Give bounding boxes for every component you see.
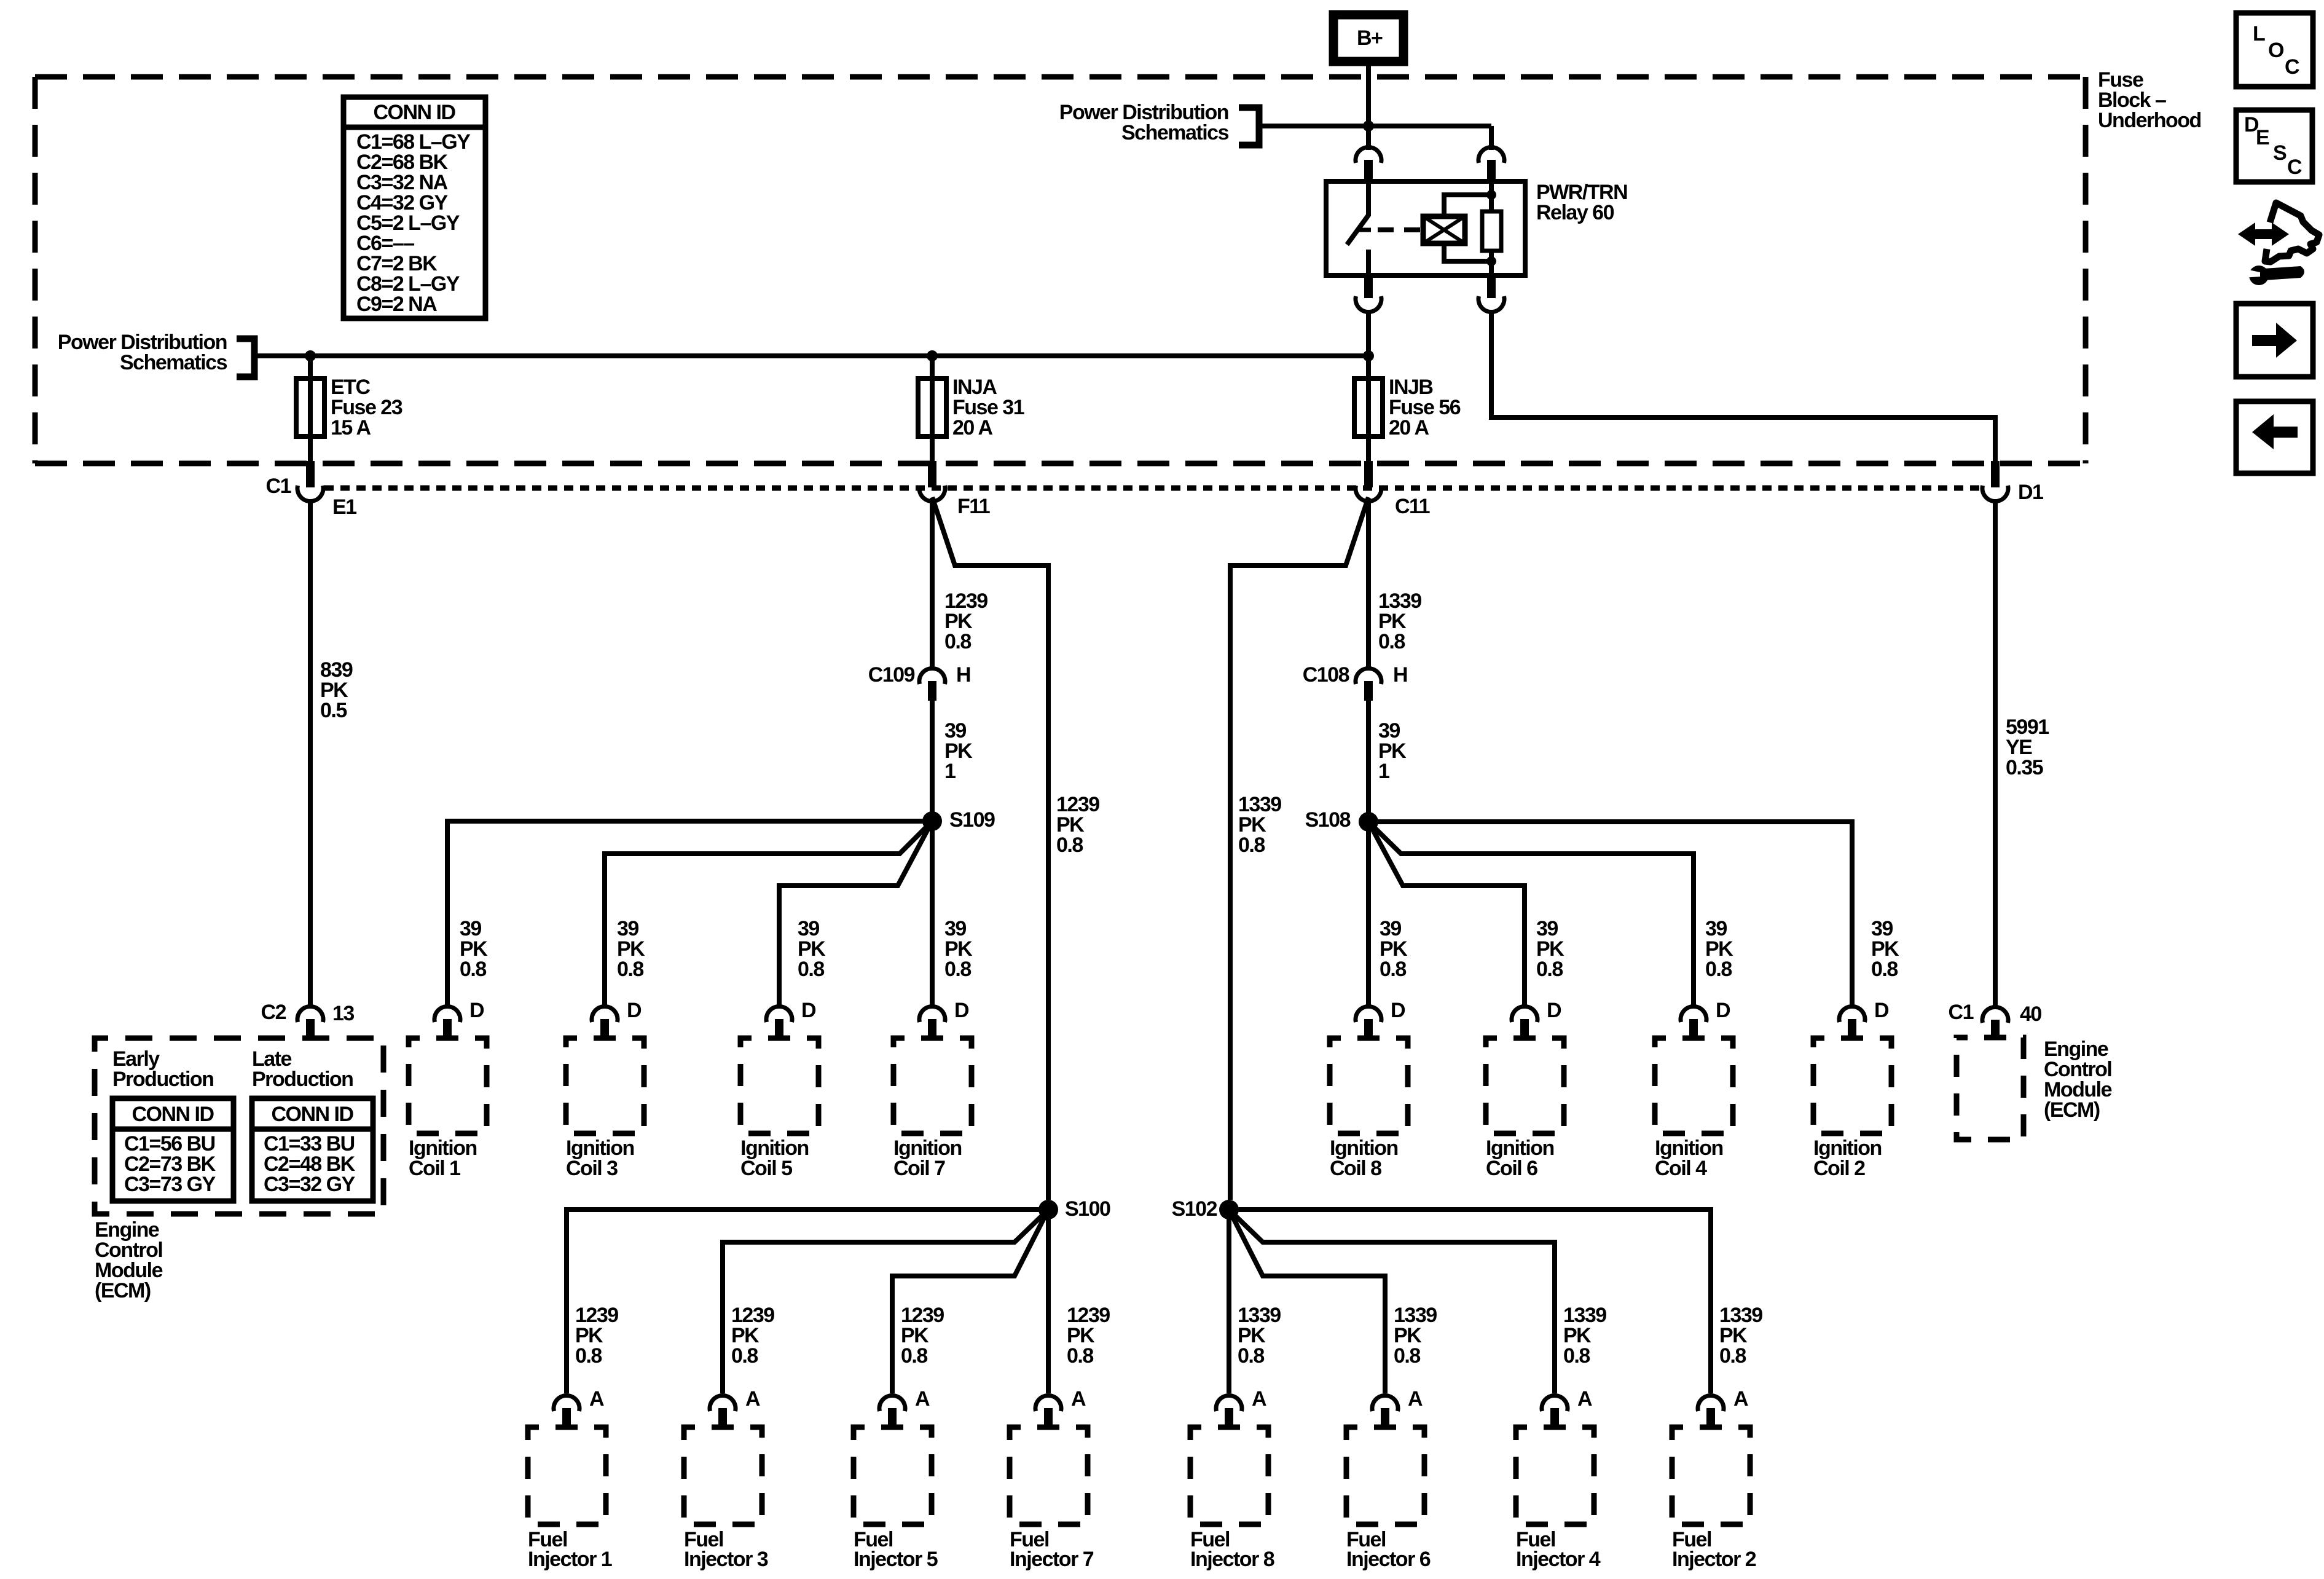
wire S108 to ignition coil 4 (1368, 822, 1694, 1006)
label wire 39 PK 1 (right) (1378, 719, 1407, 783)
wire S102 to fuel injector 4 (1229, 1210, 1555, 1393)
connector pin A fuel injector 2 (1698, 1387, 1748, 1427)
wire S109 to ignition coil 5 (779, 821, 932, 1006)
label Ignition Coil 6 (1486, 1136, 1554, 1180)
wire F11 branch to S100 feeder (932, 497, 1048, 1200)
connector pin D ignition coil 8 (1356, 999, 1405, 1039)
svg-text:O: O (2268, 39, 2284, 62)
fuel injector 5 box (854, 1427, 932, 1524)
svg-text:Coil 6: Coil 6 (1486, 1157, 1537, 1180)
fuse INJB Fuse 56 20A (1354, 358, 1383, 461)
svg-text:0.8: 0.8 (575, 1344, 602, 1368)
label wire 839 PK 0.5 (320, 658, 353, 722)
wire S100 to fuel injector 5 (892, 1210, 1048, 1393)
svg-text:0.8: 0.8 (1238, 833, 1265, 857)
connector pin A fuel injector 5 (879, 1387, 930, 1427)
svg-text:D: D (1874, 999, 1889, 1022)
connector pin A fuel injector 4 (1542, 1387, 1592, 1427)
label INJA Fuse 31 20 A (952, 376, 1024, 439)
label Ignition Coil 7 (893, 1136, 962, 1180)
label Engine Control Module ECM (right) (2044, 1038, 2112, 1122)
wire relay pin3 to main bus (1366, 311, 1371, 358)
label wire 1239 PK 0.8 (injector 1) (575, 1304, 618, 1368)
label Ignition Coil 1 (409, 1136, 477, 1180)
svg-text:Coil 2: Coil 2 (1813, 1157, 1865, 1180)
svg-text:0.35: 0.35 (2006, 756, 2043, 779)
svg-text:Production: Production (112, 1068, 213, 1091)
svg-text:C3=32 GY: C3=32 GY (264, 1173, 356, 1196)
wire S102 to fuel injector 2 (1229, 1210, 1711, 1393)
svg-text:L: L (2253, 22, 2265, 45)
label wire 39 PK 0.8 (coil 5) (798, 917, 826, 981)
svg-text:C1: C1 (266, 474, 291, 498)
fuel injector 4 box (1516, 1427, 1594, 1524)
svg-text:0.8: 0.8 (617, 958, 643, 981)
ignition coil 8 box (1330, 1038, 1408, 1133)
wire S102 to fuel injector 6 (1229, 1210, 1385, 1393)
connector pin A fuel injector 6 (1372, 1387, 1423, 1427)
table CONN ID late production (252, 1098, 373, 1201)
label INJB Fuse 56 20 A (1389, 376, 1461, 439)
svg-text:0.5: 0.5 (320, 699, 347, 722)
svg-text:0.8: 0.8 (460, 958, 486, 981)
wire relay pin2 internal vertical (1489, 181, 1494, 275)
wire S108 to ignition coil 8 (1366, 830, 1371, 1006)
svg-text:F11: F11 (957, 495, 990, 518)
svg-text:Schematics: Schematics (120, 351, 227, 374)
svg-text:20 A: 20 A (952, 416, 993, 439)
svg-text:E: E (2256, 126, 2269, 149)
connector C109 pin H (868, 663, 970, 701)
table CONN ID early production (112, 1098, 234, 1201)
svg-text:0.8: 0.8 (1719, 1344, 1746, 1368)
label wire 1339 PK 0.8 (C11-C108) (1378, 589, 1421, 653)
fuel injector 6 box (1346, 1427, 1424, 1524)
wire S100 to fuel injector 1 (567, 1210, 1048, 1393)
svg-text:Relay 60: Relay 60 (1536, 201, 1614, 224)
svg-text:D: D (954, 999, 969, 1022)
relay coil (box with X) (1423, 216, 1465, 243)
svg-text:H: H (956, 663, 970, 687)
wire 839 PK 0.5 (308, 500, 313, 1006)
fuel injector 1 box (528, 1427, 606, 1524)
connector relay pin 4 (bottom right) (1478, 275, 1504, 312)
label wire 39 PK 0.8 (coil 6) (1536, 917, 1564, 981)
svg-text:CONN ID: CONN ID (373, 101, 455, 124)
svg-text:0.8: 0.8 (731, 1344, 758, 1368)
fuse ETC Fuse 23 15A (296, 358, 324, 461)
fuel injector 8 box (1190, 1427, 1268, 1524)
label Ignition Coil 4 (1655, 1136, 1723, 1180)
harness dotted boundary line (324, 486, 1980, 491)
fuel injector 2 box (1672, 1427, 1750, 1524)
svg-text:C11: C11 (1395, 495, 1430, 518)
connector C2 pin 13 (ECM) (261, 1001, 355, 1039)
connector C108 pin H (1303, 663, 1407, 701)
label ETC Fuse 23 15 A (331, 376, 402, 439)
node junction ETC fuse (305, 350, 316, 361)
svg-text:0.8: 0.8 (1394, 1344, 1420, 1368)
svg-text:C109: C109 (868, 663, 915, 687)
label Ignition Coil 3 (566, 1136, 634, 1180)
svg-text:Coil 3: Coil 3 (566, 1157, 618, 1180)
svg-text:C: C (2285, 55, 2299, 79)
ignition coil 4 box (1655, 1038, 1733, 1133)
svg-text:0.8: 0.8 (1378, 630, 1405, 653)
svg-text:1: 1 (944, 760, 956, 783)
svg-text:CONN ID: CONN ID (132, 1103, 214, 1126)
label Fuel Injector 1 (528, 1528, 612, 1571)
connector C1 pin 40 (ECM right) (1949, 1001, 2042, 1039)
label wire 39 PK 0.8 (coil 2) (1871, 917, 1899, 981)
svg-text:0.8: 0.8 (1563, 1344, 1590, 1368)
resistor relay suppression (1482, 211, 1501, 251)
svg-text:Coil 5: Coil 5 (740, 1157, 792, 1180)
svg-text:Coil 1: Coil 1 (409, 1157, 460, 1180)
svg-text:S100: S100 (1065, 1197, 1110, 1221)
connector pin A fuel injector 8 (1216, 1387, 1266, 1427)
label Fuel Injector 4 (1516, 1528, 1601, 1571)
ignition coil 2 box (1813, 1038, 1891, 1133)
node splice S109 (922, 808, 995, 832)
label Engine Control Module ECM (left) (95, 1218, 163, 1302)
label PWR/TRN Relay 60 (1536, 181, 1627, 224)
svg-text:1: 1 (1378, 760, 1389, 783)
label Power Distribution Schematics (left) (58, 331, 227, 374)
ignition coil 7 box (893, 1038, 972, 1133)
relay switch contact (1347, 181, 1371, 275)
wire main power bus (257, 353, 1368, 358)
fuel injector 7 box (1010, 1427, 1088, 1524)
svg-text:Injector 8: Injector 8 (1190, 1548, 1274, 1571)
node coil bottom junction (1486, 256, 1496, 266)
label Fuel Injector 6 (1346, 1528, 1431, 1571)
svg-text:0.8: 0.8 (944, 958, 971, 981)
label Early Production (112, 1047, 213, 1091)
svg-text:C: C (2287, 156, 2302, 179)
svg-text:40: 40 (2020, 1002, 2041, 1026)
table CONN ID (fuse block) (343, 97, 485, 318)
connector relay pin 3 (bottom left) (1356, 275, 1381, 312)
wire F11 to C109 (1239 PK 0.8) (930, 500, 935, 669)
relay PWR/TRN Relay 60 box (1326, 181, 1525, 275)
connector pin D ignition coil 1 (434, 999, 484, 1039)
svg-text:Injector 3: Injector 3 (684, 1548, 768, 1571)
wire C11 branch to S102 feeder (1230, 497, 1368, 1200)
label Ignition Coil 5 (740, 1136, 809, 1180)
wire relay pin4 to D1 drop (1491, 311, 1995, 461)
label wire 39 PK 0.8 (coil 7) (944, 917, 973, 981)
connector pin A fuel injector 1 (554, 1387, 604, 1427)
wire bracket to relay top junction (1262, 124, 1491, 128)
connector pin F11 (919, 461, 990, 518)
svg-text:0.8: 0.8 (798, 958, 824, 981)
fuse INJA Fuse 31 20A (918, 358, 946, 461)
label Fuel Injector 3 (684, 1528, 768, 1571)
svg-text:D1: D1 (2018, 481, 2043, 504)
svg-text:C9=2 NA: C9=2 NA (356, 293, 437, 316)
label wire 1239 PK 0.8 (F11-C109) (944, 589, 987, 653)
svg-text:0.8: 0.8 (1056, 833, 1083, 857)
connector C1 pin E1 (266, 461, 357, 519)
svg-text:D: D (469, 999, 484, 1022)
engine control module box (right) (1957, 1038, 2024, 1140)
node coil top junction (1486, 190, 1496, 200)
svg-text:C1: C1 (1949, 1001, 1974, 1024)
svg-text:Production: Production (252, 1068, 353, 1091)
svg-text:Coil 8: Coil 8 (1330, 1157, 1381, 1180)
wire S109 to ignition coil 3 (605, 821, 932, 1006)
label wire 39 PK 0.8 (coil 3) (617, 917, 645, 981)
svg-text:15 A: 15 A (331, 416, 371, 439)
label wire 1339 PK 0.8 (injector 2) (1719, 1304, 1762, 1368)
svg-text:0.8: 0.8 (1536, 958, 1563, 981)
svg-text:C3=73 GY: C3=73 GY (124, 1173, 216, 1196)
wire D1 to ECM (5991 YE 0.35) (1993, 500, 1998, 1006)
svg-text:20 A: 20 A (1389, 416, 1429, 439)
label wire 1339 PK 0.8 (injector 4) (1563, 1304, 1606, 1368)
svg-text:H: H (1393, 663, 1407, 687)
svg-text:B+: B+ (1357, 26, 1383, 50)
svg-text:0.8: 0.8 (901, 1344, 927, 1368)
node splice S102 (1172, 1197, 1239, 1221)
B+ battery feed box (1333, 15, 1403, 61)
ignition coil 3 box (566, 1038, 644, 1133)
bracket to Power Distribution Schematics (top) (1239, 108, 1259, 145)
label wire 1339 PK 0.8 (injector B feed) (1238, 793, 1281, 857)
svg-text:A: A (745, 1387, 760, 1411)
label wire 39 PK 0.8 (coil 8) (1380, 917, 1408, 981)
svg-text:A: A (1408, 1387, 1423, 1411)
svg-text:(ECM): (ECM) (2044, 1098, 2100, 1122)
node junction INJB fuse (1363, 350, 1374, 361)
svg-text:E1: E1 (332, 495, 356, 519)
bracket to Power Distribution Schematics (left) (237, 339, 254, 377)
svg-text:A: A (1577, 1387, 1592, 1411)
wire S100 to fuel injector 7 (1046, 1218, 1051, 1393)
node junction INJA fuse (927, 350, 938, 361)
label Ignition Coil 8 (1330, 1136, 1398, 1180)
label wire 1339 PK 0.8 (injector 8) (1238, 1304, 1281, 1368)
wire S100 to fuel injector 3 (723, 1210, 1048, 1393)
svg-text:D: D (1547, 999, 1561, 1022)
label wire 1239 PK 0.8 (injector 5) (901, 1304, 944, 1368)
fuse block outer dashed box (Fuse Block - Underhood) (35, 77, 2086, 463)
svg-text:0.8: 0.8 (944, 630, 971, 653)
wire S109 to ignition coil 1 (447, 821, 932, 1006)
ignition coil 5 box (740, 1038, 819, 1133)
svg-text:(ECM): (ECM) (95, 1279, 151, 1302)
label Fuel Injector 5 (854, 1528, 938, 1571)
connector pin D ignition coil 4 (1681, 999, 1730, 1039)
svg-text:A: A (1252, 1387, 1266, 1411)
label Fuse Block - Underhood (2098, 68, 2201, 132)
svg-text:CONN ID: CONN ID (271, 1103, 353, 1126)
label Fuel Injector 7 (1010, 1528, 1094, 1571)
svg-text:0.8: 0.8 (1067, 1344, 1093, 1368)
svg-text:S109: S109 (949, 808, 995, 832)
label wire 39 PK 1 (left) (944, 719, 973, 783)
icon previous arrow box (2236, 401, 2313, 473)
svg-text:Injector 7: Injector 7 (1010, 1548, 1094, 1571)
label Fuel Injector 8 (1190, 1528, 1274, 1571)
connector pin D1 (1982, 461, 2043, 504)
connector pin A fuel injector 7 (1035, 1387, 1086, 1427)
wire relay coil-pin drop (1489, 126, 1494, 150)
svg-text:Injector 4: Injector 4 (1516, 1548, 1601, 1571)
connector pin D ignition coil 2 (1839, 999, 1889, 1039)
svg-text:Injector 2: Injector 2 (1672, 1548, 1756, 1571)
node splice S108 (1305, 808, 1378, 832)
wire B+ feed down to relay junction (1366, 61, 1371, 150)
connector pin A fuel injector 3 (710, 1387, 760, 1427)
svg-text:S102: S102 (1172, 1197, 1217, 1221)
wire S108 to ignition coil 6 (1368, 822, 1525, 1006)
svg-text:Schematics: Schematics (1121, 121, 1229, 144)
icon harness routing (glove with arrow and wrench) (2238, 203, 2319, 285)
label wire 1239 PK 0.8 (injector 7) (1067, 1304, 1110, 1368)
svg-text:Injector 1: Injector 1 (528, 1548, 612, 1571)
label wire 39 PK 0.8 (coil 4) (1705, 917, 1733, 981)
svg-text:C2: C2 (261, 1001, 286, 1024)
connector pin D ignition coil 5 (766, 999, 816, 1039)
svg-text:D: D (1391, 999, 1405, 1022)
svg-text:0.8: 0.8 (1705, 958, 1732, 981)
svg-text:A: A (1071, 1387, 1086, 1411)
connector pin D ignition coil 6 (1512, 999, 1561, 1039)
wire C109 to S109 (39 PK 1) (930, 701, 935, 813)
svg-text:D: D (627, 999, 642, 1022)
connector pin D ignition coil 3 (592, 999, 642, 1039)
label wire 39 PK 0.8 (coil 1) (460, 917, 488, 981)
fuel injector 3 box (684, 1427, 762, 1524)
svg-text:Injector 6: Injector 6 (1346, 1548, 1431, 1571)
label wire 1239 PK 0.8 (injector 3) (731, 1304, 774, 1368)
svg-text:D: D (801, 999, 816, 1022)
svg-text:0.8: 0.8 (1238, 1344, 1264, 1368)
ignition coil 6 box (1486, 1038, 1564, 1133)
svg-text:D: D (1716, 999, 1730, 1022)
node splice S100 (1038, 1197, 1110, 1221)
label Power Distribution Schematics (top) (1059, 101, 1229, 144)
connector relay pin 1 (top left) (1356, 147, 1381, 182)
icon DESC box (2236, 110, 2312, 182)
connector pin D ignition coil 7 (919, 999, 969, 1039)
svg-text:S108: S108 (1305, 808, 1351, 832)
relay actuator dashed link (1378, 227, 1423, 232)
svg-text:Injector 5: Injector 5 (854, 1548, 938, 1571)
label Fuel Injector 2 (1672, 1528, 1756, 1571)
label wire 1239 PK 0.8 (injector A feed) (1056, 793, 1099, 857)
label wire 5991 YE 0.35 (2006, 715, 2049, 779)
label Ignition Coil 2 (1813, 1136, 1882, 1180)
wire S109 to ignition coil 7 (930, 830, 935, 1006)
label Late Production (252, 1047, 353, 1091)
svg-text:Coil 4: Coil 4 (1655, 1157, 1707, 1180)
connector relay pin 2 (top right) (1478, 147, 1504, 182)
wire C11 to C108 (1339 PK 0.8) (1366, 500, 1371, 669)
wire relay coil top to pin 2 (1444, 195, 1491, 216)
svg-text:S: S (2273, 141, 2287, 165)
node junction B+ / relay coil feed (1363, 120, 1374, 132)
wire relay coil bottom to pin 2 (1444, 243, 1491, 261)
icon next arrow box (2236, 304, 2313, 377)
svg-text:A: A (1733, 1387, 1748, 1411)
ignition coil 1 box (409, 1038, 487, 1133)
wire C108 to S108 (39 PK 1) (1366, 701, 1371, 813)
engine control module dashed box (left) (95, 1038, 383, 1214)
svg-text:0.8: 0.8 (1871, 958, 1898, 981)
svg-text:Underhood: Underhood (2098, 109, 2201, 132)
svg-text:C108: C108 (1303, 663, 1349, 687)
svg-text:A: A (589, 1387, 604, 1411)
wire S102 to fuel injector 8 (1227, 1218, 1231, 1393)
svg-text:A: A (915, 1387, 930, 1411)
svg-text:0.8: 0.8 (1380, 958, 1406, 981)
connector pin C11 (1356, 461, 1430, 518)
svg-text:13: 13 (332, 1002, 354, 1025)
wire S108 to ignition coil 2 (1368, 822, 1852, 1006)
icon LOC box (2236, 13, 2313, 87)
svg-text:Coil 7: Coil 7 (893, 1157, 945, 1180)
label wire 1339 PK 0.8 (injector 6) (1394, 1304, 1437, 1368)
